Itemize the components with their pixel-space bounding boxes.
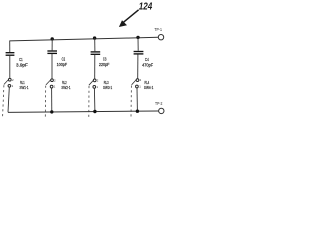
svg-text:2: 2 xyxy=(12,78,14,82)
capacitor C3 xyxy=(91,52,101,54)
svg-text:1: 1 xyxy=(54,85,56,89)
svg-text:3.9pF: 3.9pF xyxy=(16,62,28,67)
svg-text:2: 2 xyxy=(54,78,56,82)
bottom bus wire xyxy=(8,111,159,112)
C2 value label xyxy=(57,57,68,67)
TP-1 label xyxy=(154,27,162,32)
svg-text:SW3-1: SW3-1 xyxy=(103,85,113,90)
node junction bottom SW4 xyxy=(136,110,139,113)
node junction top C4 xyxy=(136,36,139,39)
svg-text:124: 124 xyxy=(139,2,153,13)
svg-text:C2: C2 xyxy=(62,57,66,62)
RL2 actuator dashed link xyxy=(44,86,46,117)
svg-text:1: 1 xyxy=(12,84,14,88)
wire SW2 to bottom bus xyxy=(51,88,53,112)
node junction bottom SW3 xyxy=(93,110,96,113)
RL2 label xyxy=(61,80,71,90)
TP-1 terminal circle xyxy=(158,35,163,40)
RL3 actuator dashed link xyxy=(88,86,90,117)
wire C2 to switch xyxy=(51,54,53,79)
wire bus to C3 xyxy=(94,38,96,51)
svg-text:100pF: 100pF xyxy=(57,62,68,67)
wire SW3 to bottom bus xyxy=(93,88,96,111)
capacitor C1 xyxy=(6,53,15,56)
relay switch SW2 (RL2) xyxy=(46,78,56,88)
svg-text:SW2-1: SW2-1 xyxy=(61,85,71,90)
reference label 124 xyxy=(139,2,153,13)
wire SW4 to bottom bus xyxy=(136,88,138,111)
node junction top C2 xyxy=(51,37,54,40)
node junction bottom SW2 xyxy=(50,110,53,113)
TP-2 label xyxy=(155,101,163,106)
svg-text:220pF: 220pF xyxy=(99,62,110,67)
svg-text:TP-2: TP-2 xyxy=(155,101,163,106)
wire C4 to switch xyxy=(137,55,139,79)
relay switch SW1 (RL1) xyxy=(4,78,14,88)
wire bus to C1 xyxy=(9,41,11,53)
top bus wire xyxy=(10,37,159,41)
svg-text:2: 2 xyxy=(97,79,99,83)
svg-text:1: 1 xyxy=(97,85,99,89)
capacitor C2 xyxy=(47,51,57,53)
C4 value label xyxy=(142,57,153,68)
svg-text:C3: C3 xyxy=(103,57,107,62)
wire C1 to switch xyxy=(9,56,11,78)
C1 value label xyxy=(16,57,28,67)
RL1 label xyxy=(20,80,29,90)
svg-text:2: 2 xyxy=(140,78,142,82)
relay switch SW4 (RL4) xyxy=(132,78,142,88)
RL3 label xyxy=(103,80,113,90)
C3 value label xyxy=(99,57,110,67)
svg-text:C1: C1 xyxy=(19,57,23,62)
capacitor C4 xyxy=(134,52,144,54)
RL4 actuator dashed link xyxy=(130,86,132,118)
relay switch SW3 (RL3) xyxy=(89,79,99,90)
svg-text:TP-1: TP-1 xyxy=(154,27,162,32)
svg-text:470pF: 470pF xyxy=(142,62,153,67)
wire C3 to switch xyxy=(94,55,96,79)
RL1 actuator dashed link xyxy=(3,85,4,116)
TP-2 terminal circle xyxy=(159,108,164,113)
wire bus to C4 xyxy=(137,37,139,50)
node junction top C3 xyxy=(93,36,96,39)
svg-text:C4: C4 xyxy=(145,57,149,62)
wire bus to C2 xyxy=(51,39,53,51)
svg-text:SW4-1: SW4-1 xyxy=(144,85,154,90)
svg-text:1: 1 xyxy=(139,85,141,89)
arrow to node xyxy=(119,10,139,27)
RL4 label xyxy=(144,80,154,90)
svg-text:SW1-1: SW1-1 xyxy=(20,85,29,90)
wire SW1 to bottom bus xyxy=(8,87,9,112)
